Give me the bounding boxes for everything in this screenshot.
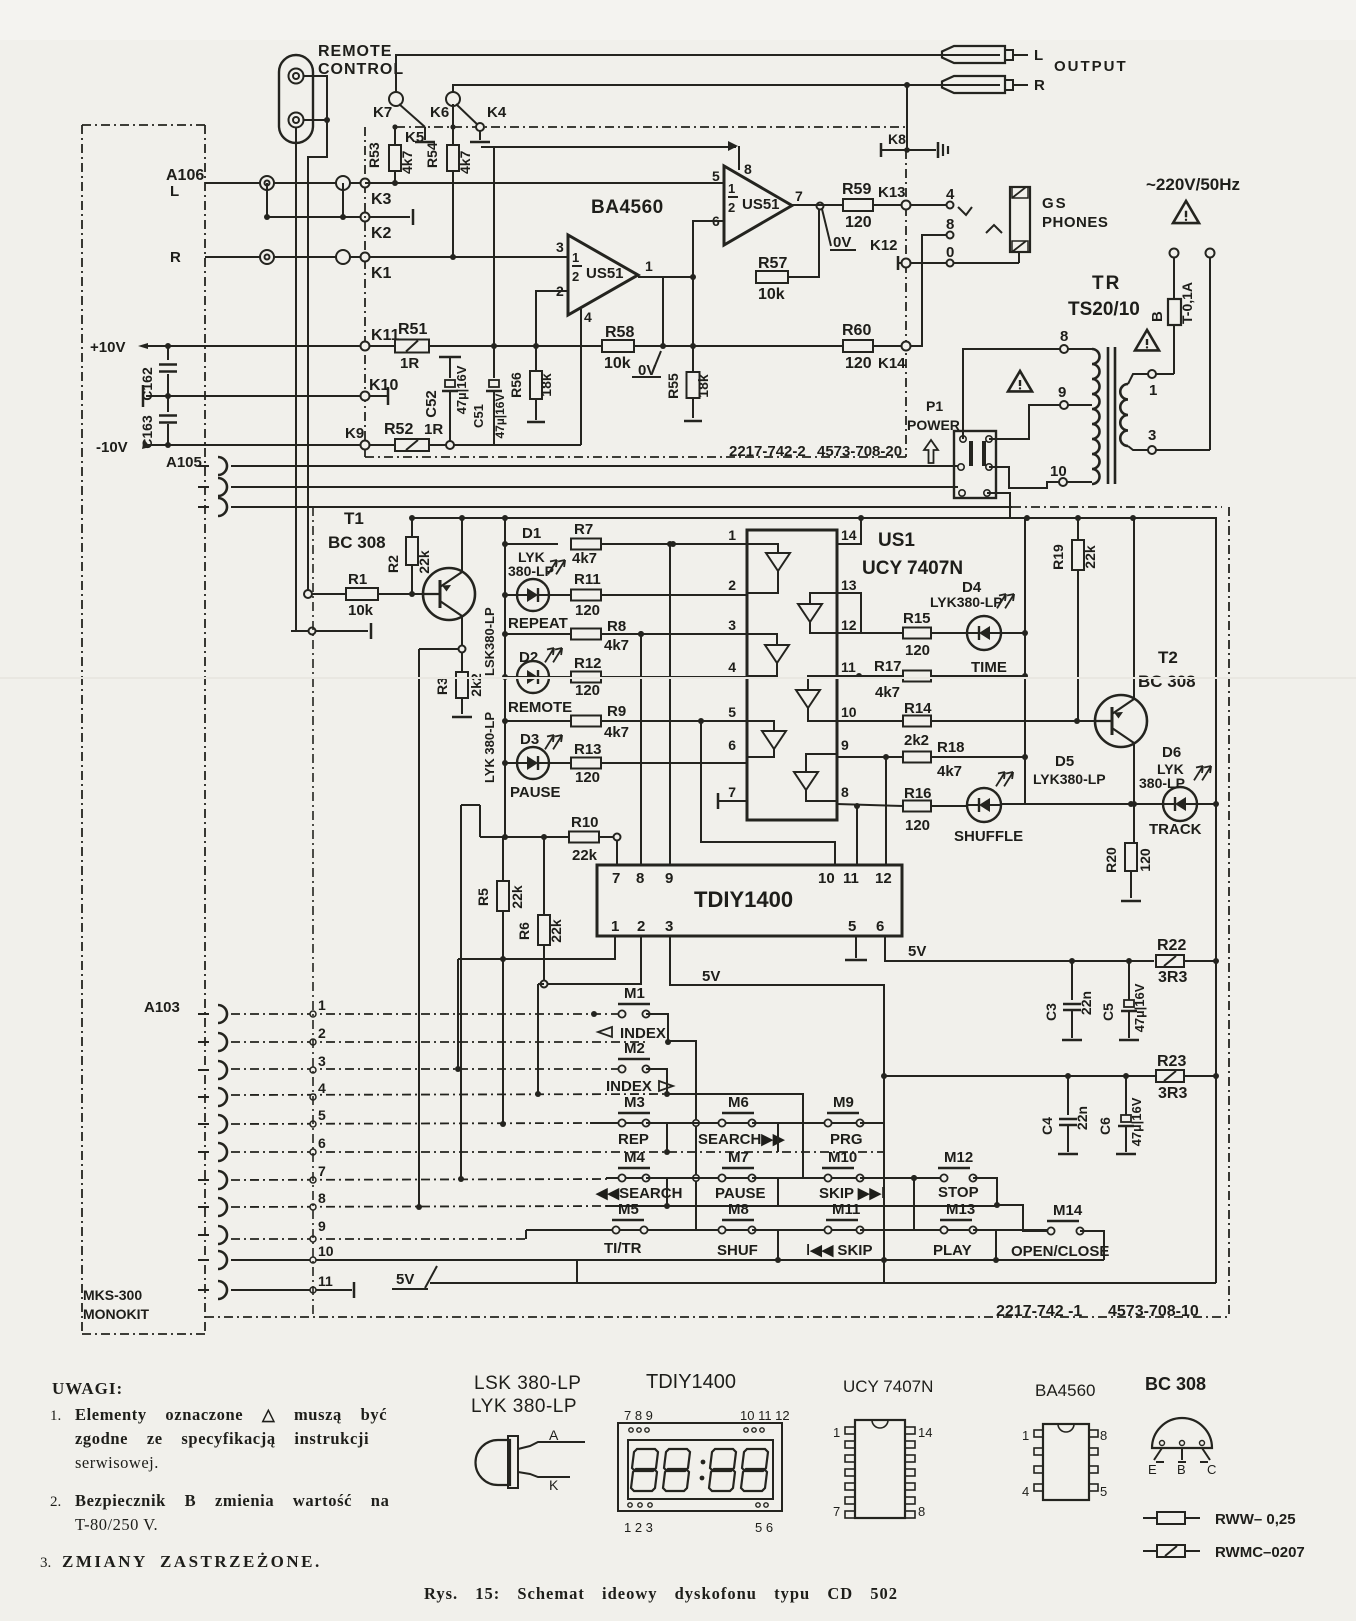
K8 contact — [880, 143, 883, 157]
svg-text:2: 2 — [572, 269, 579, 284]
wire A105-2 — [231, 486, 958, 488]
wire R57 loop — [788, 210, 819, 277]
A105 hook1 — [218, 457, 227, 475]
svg-text:7: 7 — [795, 188, 803, 204]
A105 hook3 — [218, 498, 227, 516]
jumper circle — [336, 176, 350, 190]
resistor R53 — [394, 127, 396, 146]
M10 return — [860, 1178, 884, 1206]
svg-text:E: E — [1148, 1462, 1157, 1477]
svg-text:8: 8 — [841, 784, 849, 800]
svg-text:LSK 380-LP: LSK 380-LP — [474, 1373, 581, 1394]
svg-text:C4: C4 — [1039, 1117, 1055, 1135]
svg-text:PHONES: PHONES — [1042, 214, 1108, 231]
svg-text:L: L — [170, 183, 179, 200]
svg-text:D2: D2 — [519, 649, 538, 666]
wire secondary pin1 — [1128, 374, 1148, 384]
svg-text:LYK 380-LP: LYK 380-LP — [471, 1396, 577, 1417]
svg-text:R5: R5 — [475, 888, 491, 906]
resistor R7 row — [502, 541, 508, 547]
pushbutton M12 — [938, 1167, 970, 1169]
svg-text:4k7: 4k7 — [572, 550, 597, 567]
warning triangle fuse — [1135, 330, 1159, 350]
capacitor C162 — [167, 346, 169, 360]
wire +10V rail — [146, 345, 398, 347]
wire A103-3 — [231, 1068, 618, 1070]
TDIY pin6 5V wire — [885, 936, 1154, 961]
svg-text:R60: R60 — [842, 322, 871, 339]
svg-text:RWMC–0207: RWMC–0207 — [1215, 1544, 1305, 1561]
audio board dash-dot boundary — [364, 127, 366, 457]
svg-text:5V: 5V — [908, 943, 926, 960]
US1 pin14 wire — [837, 518, 861, 544]
svg-text:D3: D3 — [520, 731, 539, 748]
wire remote bottom join — [303, 119, 327, 121]
svg-text:14: 14 — [918, 1425, 932, 1440]
jumper circle2 — [336, 250, 350, 264]
svg-text:R15: R15 — [903, 610, 931, 627]
wire x461 to row7 — [460, 805, 462, 1180]
svg-text:10k: 10k — [604, 355, 631, 372]
svg-text:R7: R7 — [574, 521, 593, 538]
legend RWMC-0207 — [1143, 1550, 1157, 1552]
svg-text:K2: K2 — [371, 225, 392, 242]
transformer core — [1107, 347, 1110, 484]
svg-text:1: 1 — [833, 1425, 840, 1440]
svg-text:M13: M13 — [946, 1201, 975, 1218]
resistor R17 row — [856, 673, 862, 679]
svg-text:REMOTE: REMOTE — [318, 43, 392, 60]
svg-text:120: 120 — [1137, 848, 1153, 872]
resistor R5 — [497, 881, 509, 911]
svg-text:2: 2 — [637, 918, 645, 935]
svg-text:5 6: 5 6 — [755, 1520, 773, 1535]
LED D1 REPEAT — [502, 592, 508, 598]
M1 return wire — [646, 1014, 696, 1230]
svg-text:◀◀SEARCH: ◀◀SEARCH — [595, 1185, 682, 1202]
svg-text:8: 8 — [946, 216, 954, 233]
secondary pin 3 — [1148, 446, 1156, 454]
svg-text:380-LP: 380-LP — [1139, 775, 1185, 791]
resistor R9 row — [502, 718, 508, 724]
pushbutton M2 — [618, 1058, 650, 1060]
svg-text:M5: M5 — [618, 1201, 639, 1218]
legend DIP14 drawing — [855, 1420, 905, 1518]
svg-text:D6: D6 — [1162, 744, 1181, 761]
A103 hook pin 3 — [218, 1061, 227, 1079]
transformer secondary coil — [1120, 384, 1128, 446]
svg-text:8: 8 — [918, 1504, 925, 1519]
seven segment digits — [632, 1449, 658, 1471]
phones contact 0 — [947, 260, 954, 267]
op-amp US51b — [724, 166, 792, 245]
pushbutton M7 — [722, 1167, 754, 1169]
svg-text:T-0,1A: T-0,1A — [1179, 282, 1195, 324]
svg-text:3.: 3. — [40, 1555, 51, 1571]
T2 emitter wire — [1133, 518, 1135, 699]
svg-text:11: 11 — [843, 870, 859, 887]
op2 output circle — [817, 203, 824, 210]
svg-text:M11: M11 — [832, 1201, 860, 1218]
TDIY pin10 up wire — [701, 721, 835, 865]
jumper K11 — [361, 342, 370, 351]
svg-text:US51: US51 — [586, 265, 624, 282]
wire mid 0V row — [146, 395, 388, 397]
svg-text:R19: R19 — [1050, 544, 1066, 570]
jumper K1 circle — [361, 253, 370, 262]
A103 hook pin 11 — [218, 1281, 227, 1299]
svg-text:18k: 18k — [695, 374, 711, 398]
resistor R54 — [452, 127, 454, 146]
A103 hook pin 4 — [218, 1088, 227, 1106]
capacitor C3 — [1071, 961, 1073, 1000]
svg-text:D5: D5 — [1055, 753, 1074, 770]
svg-text:5V: 5V — [396, 1271, 414, 1288]
TDIY pin1 down wire — [458, 936, 615, 959]
resistor R51 — [395, 340, 429, 353]
jumper K10 — [361, 392, 370, 401]
svg-text:2: 2 — [728, 577, 736, 593]
svg-text:1: 1 — [1149, 382, 1157, 399]
svg-text:1R: 1R — [400, 355, 419, 372]
jumper K2 circle — [361, 213, 370, 222]
svg-text:LYK380-LP: LYK380-LP — [1033, 771, 1106, 787]
svg-text:TDIY1400: TDIY1400 — [694, 887, 793, 912]
svg-text:2: 2 — [318, 1025, 326, 1041]
svg-text:K1: K1 — [371, 265, 392, 282]
wire -10V rail — [146, 444, 398, 446]
phones contact 8 — [947, 232, 954, 239]
svg-text:M4: M4 — [624, 1149, 645, 1166]
connector pin R — [260, 250, 274, 264]
svg-text:REMOTE: REMOTE — [508, 699, 572, 716]
svg-text:5: 5 — [712, 168, 720, 184]
wire K14 up to phones 8 — [911, 235, 946, 346]
svg-text:R53: R53 — [366, 142, 382, 168]
capacitor C6 — [1125, 1076, 1127, 1115]
svg-text:ZMIANY ZASTRZEŻONE.: ZMIANY ZASTRZEŻONE. — [62, 1552, 322, 1571]
svg-text:A106: A106 — [166, 167, 204, 184]
svg-text:UWAGI:: UWAGI: — [52, 1379, 123, 1398]
svg-text:RWW– 0,25: RWW– 0,25 — [1215, 1511, 1296, 1528]
buffer A — [747, 544, 778, 553]
resistor R55 — [687, 372, 700, 398]
svg-text:3: 3 — [728, 617, 736, 633]
wire 8 to K12 — [921, 235, 923, 263]
svg-text:M1: M1 — [624, 985, 645, 1002]
svg-text:BA4560: BA4560 — [1035, 1381, 1096, 1400]
svg-text:K6: K6 — [430, 104, 449, 121]
svg-text:R57: R57 — [758, 255, 787, 272]
pushbutton M14 — [1047, 1220, 1079, 1222]
switch P1 box — [954, 431, 996, 498]
wire P1 to pin10 — [989, 467, 1059, 488]
svg-text:13: 13 — [841, 577, 857, 593]
resistor R13 — [571, 758, 601, 769]
T1 collector wire — [461, 616, 463, 645]
svg-text:Bezpiecznik B zmienia wartość: Bezpiecznik B zmienia wartość na — [75, 1491, 389, 1510]
display corner pin circles — [629, 1428, 633, 1432]
svg-text:8: 8 — [636, 870, 644, 887]
output plug L — [942, 46, 1005, 63]
svg-text:4k7: 4k7 — [457, 150, 473, 174]
paper crease — [0, 677, 1356, 679]
cable crossing circles — [310, 1011, 316, 1017]
IC US1 box — [747, 530, 837, 820]
svg-text:R: R — [1034, 77, 1045, 94]
svg-text:PAUSE: PAUSE — [510, 784, 561, 801]
wire op2 output — [792, 204, 845, 206]
svg-text:10k: 10k — [348, 602, 374, 619]
resistor R58 — [602, 340, 634, 352]
svg-text:R55: R55 — [665, 373, 681, 399]
output plug R — [942, 76, 1005, 93]
svg-text:R20: R20 — [1103, 847, 1119, 873]
svg-text:3: 3 — [1148, 427, 1156, 444]
transformer pin 9 — [1060, 401, 1068, 409]
svg-text:22n: 22n — [1074, 1106, 1090, 1130]
M5 feed jog — [525, 1230, 527, 1239]
resistor R14 row — [837, 720, 903, 722]
MKS-300 MONOKIT board outline — [82, 124, 205, 126]
matrix row5 line — [526, 1229, 1047, 1231]
pushbutton M5 — [612, 1219, 644, 1221]
svg-text:R59: R59 — [842, 181, 871, 198]
wire K6 down — [452, 104, 454, 127]
svg-text:1: 1 — [572, 250, 579, 265]
svg-text:R18: R18 — [937, 739, 965, 756]
svg-text:R10: R10 — [571, 814, 599, 831]
svg-text:22k: 22k — [1082, 545, 1098, 569]
svg-text:10: 10 — [1050, 463, 1067, 480]
svg-text:T1: T1 — [344, 509, 364, 528]
svg-text:47µ|16V: 47µ|16V — [1129, 1097, 1144, 1146]
remote stub T-bar — [291, 630, 368, 632]
A103 hook pin 1 — [218, 1005, 227, 1023]
flash D1 — [548, 560, 557, 574]
M8 return — [752, 1230, 778, 1260]
resistor R15 row — [861, 632, 903, 634]
resistor R1 — [304, 590, 312, 598]
svg-text:R17: R17 — [874, 658, 902, 675]
wire to pin8 arrow — [481, 146, 736, 148]
transformer pin 8 — [1060, 345, 1068, 353]
svg-text:120: 120 — [575, 682, 600, 699]
svg-text:3: 3 — [556, 239, 564, 255]
svg-text:M2: M2 — [624, 1040, 645, 1057]
svg-text:1 2 3: 1 2 3 — [624, 1520, 653, 1535]
svg-text:5: 5 — [848, 918, 856, 935]
switch K4 stub — [479, 131, 481, 140]
capacitor C5 — [1128, 961, 1130, 1000]
wire pin2 — [536, 291, 568, 346]
wire A103-6 — [231, 1151, 884, 1153]
svg-text:47µ|16V: 47µ|16V — [493, 394, 507, 439]
svg-text:120: 120 — [575, 602, 600, 619]
svg-text:6: 6 — [728, 737, 736, 753]
LED D6 TRACK — [1163, 787, 1197, 821]
svg-text:Rys. 15: Schemat ideowy dyskof: Rys. 15: Schemat ideowy dyskofonu typu C… — [424, 1584, 898, 1603]
warning triangle 220V — [1173, 201, 1199, 223]
wire P1 bottom pin — [987, 493, 1010, 518]
svg-text:47µ|16V: 47µ|16V — [1132, 983, 1147, 1032]
svg-text:C5: C5 — [1100, 1003, 1116, 1021]
svg-text:BC 308: BC 308 — [1145, 1374, 1206, 1394]
svg-text:T2: T2 — [1158, 648, 1178, 667]
svg-text:K10: K10 — [369, 377, 398, 394]
svg-text:TRACK: TRACK — [1149, 821, 1202, 838]
svg-text:STOP: STOP — [938, 1184, 979, 1201]
capacitor C4 — [1067, 1076, 1069, 1115]
svg-text:B: B — [1177, 1462, 1186, 1477]
svg-text:7 8 9: 7 8 9 — [624, 1408, 653, 1423]
flash D3 — [545, 735, 554, 749]
connector pin L — [260, 176, 274, 190]
wire pin3 — [369, 256, 567, 258]
svg-text:-10V: -10V — [96, 439, 128, 456]
svg-text:22n: 22n — [1078, 991, 1094, 1015]
svg-text:5: 5 — [728, 704, 736, 720]
svg-text:9: 9 — [665, 870, 673, 887]
buffer D — [810, 593, 837, 604]
LED D3 PAUSE — [502, 760, 508, 766]
switch K6 pivot — [446, 92, 460, 106]
T1 emitter wire — [461, 518, 463, 572]
svg-text:serwisowej.: serwisowej. — [75, 1453, 159, 1472]
fuse B — [1173, 257, 1175, 299]
resistor R12 — [571, 672, 601, 683]
M9 return — [860, 1123, 884, 1152]
wire R51 right — [429, 345, 906, 347]
resistor R22 — [1156, 955, 1184, 967]
svg-text:11: 11 — [841, 659, 856, 675]
pushbutton M9 — [827, 1112, 859, 1114]
TDIY pin7 up wire — [616, 841, 618, 865]
digital board left boundary — [312, 507, 314, 1317]
svg-text:2217-742-2: 2217-742-2 — [729, 443, 806, 460]
svg-text:4: 4 — [584, 309, 592, 325]
A103 hook pin 5 — [218, 1115, 227, 1133]
wire x343 — [342, 183, 344, 217]
earth ground K8 — [937, 142, 940, 158]
stub left of T1 — [419, 648, 458, 650]
resistor R16 row — [837, 804, 903, 806]
legend RWW-0,25 — [1143, 1517, 1157, 1519]
svg-text:2: 2 — [728, 200, 735, 215]
resistor R8 row — [502, 631, 508, 637]
anode column right — [1024, 518, 1026, 804]
resistor R11 — [571, 590, 601, 601]
svg-text:R23: R23 — [1157, 1053, 1186, 1070]
svg-text:R: R — [170, 249, 181, 266]
wire anode col to R10 — [504, 763, 506, 837]
svg-text:3R3: 3R3 — [1158, 969, 1187, 986]
svg-text:P1: P1 — [926, 398, 943, 414]
TDIY pin11 up wire — [856, 806, 858, 865]
svg-text:0: 0 — [946, 244, 954, 261]
svg-text:120: 120 — [845, 355, 872, 372]
svg-text:REPEAT: REPEAT — [508, 615, 568, 632]
svg-text:5: 5 — [318, 1107, 326, 1123]
svg-text:1.: 1. — [50, 1408, 61, 1424]
wire A103-10 — [231, 1259, 1104, 1261]
svg-text:LSK380-LP: LSK380-LP — [482, 607, 497, 676]
svg-text:9: 9 — [1058, 384, 1066, 401]
svg-text:K4: K4 — [487, 104, 507, 121]
svg-text:A103: A103 — [144, 999, 180, 1016]
R23 rail — [884, 1075, 1156, 1077]
A103 hook pin 9 — [218, 1226, 227, 1244]
remote pin top — [289, 69, 304, 84]
svg-text:R54: R54 — [424, 142, 440, 168]
TDIY pin12 up wire — [885, 757, 887, 865]
bottom 5V line — [430, 1282, 1216, 1284]
svg-text:M14: M14 — [1053, 1202, 1083, 1219]
svg-text:120: 120 — [575, 769, 600, 786]
pushbutton M8 — [722, 1219, 754, 1221]
v696 crossing circles — [693, 1120, 699, 1126]
power arrow icon — [924, 440, 938, 463]
legend LED drawing — [476, 1440, 511, 1485]
digital supply rail — [412, 518, 1216, 802]
svg-text:+10V: +10V — [90, 339, 125, 356]
svg-text:R9: R9 — [607, 703, 626, 720]
wire secondary pin3 — [1128, 446, 1148, 450]
pushbutton M4 — [618, 1167, 650, 1169]
svg-text:R16: R16 — [904, 785, 932, 802]
buffer F — [806, 754, 837, 772]
svg-text:4k7: 4k7 — [604, 724, 629, 741]
LED anode column — [504, 518, 506, 763]
A103 hook pin 6 — [218, 1143, 227, 1161]
transformer primary coil — [1092, 349, 1100, 484]
LED D5 SHUFFLE — [967, 788, 1001, 822]
svg-text:K7: K7 — [373, 104, 392, 121]
svg-text:K14: K14 — [878, 355, 906, 372]
wire A103-7 — [231, 1179, 608, 1180]
switch K7 contact — [392, 124, 397, 129]
svg-text:D1: D1 — [522, 525, 541, 542]
svg-text:2217-742 -1: 2217-742 -1 — [996, 1303, 1082, 1320]
label INDEX left — [598, 1027, 612, 1037]
row4cross to TDIY pin2 — [537, 984, 539, 1094]
resistor R59 — [843, 199, 873, 211]
wire remote top to x327 — [303, 76, 327, 594]
svg-text:UCY 7407N: UCY 7407N — [862, 558, 963, 579]
svg-text:0V: 0V — [833, 234, 851, 251]
wire K2 row — [267, 216, 410, 218]
svg-text:UCY 7407N: UCY 7407N — [843, 1377, 933, 1396]
remote control jack body — [279, 55, 313, 143]
svg-text:1: 1 — [318, 997, 326, 1013]
M2 return wire — [646, 1069, 667, 1094]
TDIY pin2 down wire — [548, 936, 641, 984]
svg-text:4573-708-20: 4573-708-20 — [817, 443, 902, 460]
svg-text:22k: 22k — [416, 550, 432, 574]
M7 return — [752, 1178, 778, 1206]
LED D4 TIME — [967, 616, 1001, 650]
svg-text:TIME: TIME — [971, 659, 1007, 676]
resistor R23 — [1156, 1070, 1184, 1082]
svg-text:5V: 5V — [702, 968, 720, 985]
legend DIP8 drawing — [1043, 1424, 1089, 1500]
resistor R20 — [1125, 843, 1137, 871]
pushbutton M6 — [722, 1112, 754, 1114]
wire A105-3 — [231, 506, 1012, 508]
resistor R3 — [461, 653, 463, 672]
svg-text:12: 12 — [841, 617, 857, 633]
switch K6 lever — [456, 104, 480, 127]
